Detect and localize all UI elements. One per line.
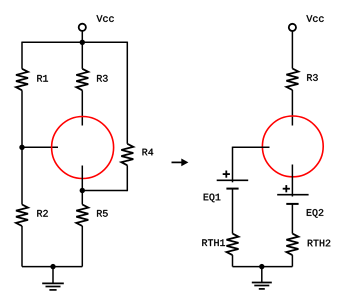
- label RTH2: [308, 240, 331, 247]
- wire RTH2 to ground rail: [291, 255, 293, 267]
- wire EQ1 branch vertical upper: [232, 147, 234, 183]
- Vcc label (right): [306, 15, 323, 22]
- wire EQ2 to RTH2: [291, 204, 293, 234]
- wire left branch upper: [21, 42, 23, 69]
- resistor R2: [16, 205, 28, 227]
- battery EQ2 plus sign: [283, 185, 290, 192]
- label RTH1: [307, 209, 324, 218]
- wire left branch lower: [21, 226, 23, 267]
- junction dot at emitter node: [80, 188, 85, 193]
- wire emitter node to R4 branch: [82, 190, 127, 192]
- label R2: [97, 75, 108, 82]
- ground (right circuit): [252, 267, 272, 289]
- label EQ2: [202, 239, 225, 246]
- transistor circle (left circuit): [52, 117, 114, 179]
- Vcc terminal (left circuit): [79, 24, 86, 31]
- wire emitter stub from circle: [81, 166, 83, 191]
- wire base stub into circle (right): [233, 146, 270, 148]
- wire Vcc stub (left): [81, 31, 83, 42]
- wire middle branch upper: [81, 42, 83, 69]
- wire right branch lower: [126, 165, 128, 191]
- wire right branch upper: [126, 42, 128, 144]
- label R3 (right circuit): [307, 74, 318, 81]
- Vcc label (left): [97, 15, 114, 22]
- wire collector stub into circle (right): [291, 90, 293, 126]
- wire top rail (left circuit): [22, 41, 127, 43]
- battery EQ1 long plate: [217, 179, 249, 181]
- resistor R1: [16, 69, 28, 91]
- label EQ1: [204, 194, 221, 203]
- junction dot at base node: [19, 145, 24, 150]
- resistor RTH2: [286, 234, 298, 256]
- resistor R4: [121, 144, 133, 166]
- wire EQ1 to RTH1: [232, 189, 234, 234]
- arrow (transform): [172, 159, 189, 167]
- wire bottom rail (left circuit): [22, 266, 82, 268]
- wire Vcc stub (right): [291, 31, 293, 68]
- battery EQ2 long plate: [277, 194, 308, 196]
- resistor R3 (right circuit): [286, 69, 298, 91]
- junction dot at Vcc rail: [80, 40, 85, 45]
- junction dot at ground node (right): [259, 264, 264, 269]
- battery EQ2 short plate: [286, 203, 298, 205]
- label R3 (left circuit): [143, 149, 154, 156]
- wire emitter stub from circle (right): [291, 165, 293, 197]
- wire collector stub into circle: [81, 90, 83, 125]
- wire RTH1 to ground rail: [232, 255, 234, 267]
- wire base stub into transistor circle: [22, 146, 58, 148]
- resistor RTH1: [227, 234, 239, 256]
- transistor circle (right circuit): [262, 116, 323, 177]
- wire emitter to R5: [81, 191, 83, 205]
- label R1: [37, 75, 48, 82]
- wire left branch middle: [21, 90, 23, 204]
- label R5: [97, 210, 108, 217]
- wire R5 to ground rail: [81, 226, 83, 267]
- resistor R5: [76, 205, 88, 227]
- resistor R3 (left circuit): [76, 69, 88, 91]
- junction dot at ground node (left): [50, 264, 55, 269]
- label R4: [37, 210, 48, 217]
- ground (left circuit): [42, 267, 64, 290]
- battery EQ1 short plate: [226, 188, 238, 190]
- Vcc terminal (right circuit): [289, 24, 296, 31]
- wire bottom rail (right circuit): [233, 266, 293, 268]
- battery EQ1 plus sign: [223, 171, 230, 178]
